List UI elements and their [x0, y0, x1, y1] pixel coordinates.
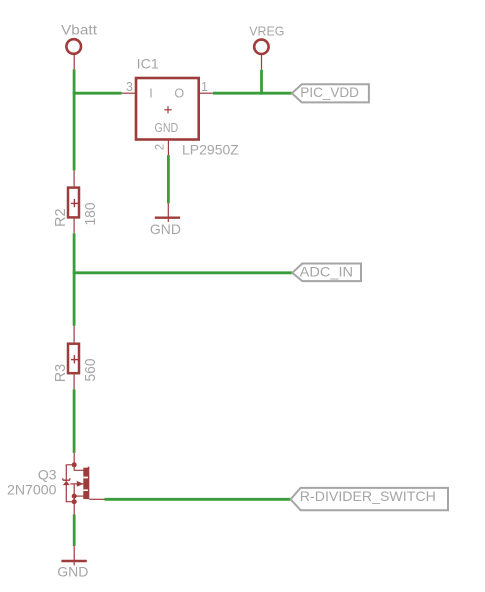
- ground under Q3: [57, 546, 88, 580]
- svg-text:O: O: [174, 87, 184, 101]
- svg-text:I: I: [149, 87, 152, 101]
- wire IC1 pin2 to GND: [167, 155, 170, 203]
- svg-text:LP2950Z: LP2950Z: [182, 142, 239, 158]
- svg-text:Q3: Q3: [38, 467, 57, 483]
- svg-text:PIC_VDD: PIC_VDD: [300, 84, 359, 100]
- svg-text:180: 180: [82, 203, 99, 226]
- wire VREG down to net: [260, 70, 263, 95]
- resistor R2 180: [52, 170, 99, 233]
- svg-text:ADC_IN: ADC_IN: [300, 264, 353, 280]
- wire Vbatt to R2: [73, 69, 76, 170]
- svg-text:GND: GND: [155, 120, 179, 135]
- svg-text:3: 3: [126, 80, 133, 94]
- wire Q3 source to GND: [73, 515, 76, 547]
- svg-text:IC1: IC1: [137, 56, 159, 72]
- wire R3 to Q3: [73, 389, 76, 453]
- svg-text:560: 560: [82, 359, 99, 382]
- supply Vbatt: [61, 22, 97, 70]
- svg-text:R2: R2: [52, 209, 69, 228]
- supply VREG: [249, 24, 284, 70]
- resistor R3 560: [52, 326, 99, 389]
- svg-text:GND: GND: [150, 221, 181, 237]
- svg-text:2N7000: 2N7000: [7, 481, 57, 497]
- node PIC_VDD flag: [292, 84, 369, 102]
- wire R2 to R3: [73, 233, 76, 326]
- svg-text:1: 1: [201, 80, 208, 94]
- wire IC1 pin1 to PIC_VDD: [213, 92, 292, 95]
- node R-DIVIDER_SWITCH flag: [291, 488, 448, 510]
- ground under IC1: [150, 203, 181, 236]
- transistor Q3 2N7000: [7, 453, 105, 515]
- svg-text:R3: R3: [52, 364, 69, 383]
- node ADC_IN flag: [292, 264, 361, 282]
- wire to ADC_IN: [73, 271, 292, 274]
- svg-text:R-DIVIDER_SWITCH: R-DIVIDER_SWITCH: [300, 488, 436, 504]
- svg-text:Vbatt: Vbatt: [61, 22, 97, 38]
- svg-text:VREG: VREG: [249, 24, 284, 39]
- wire to IC1 pin 3: [73, 92, 122, 95]
- svg-text:2: 2: [155, 144, 167, 150]
- IC1 LP2950Z regulator: [122, 56, 240, 158]
- svg-text:GND: GND: [57, 564, 88, 580]
- wire Q3 gate to R-DIVIDER_SWITCH: [105, 498, 291, 501]
